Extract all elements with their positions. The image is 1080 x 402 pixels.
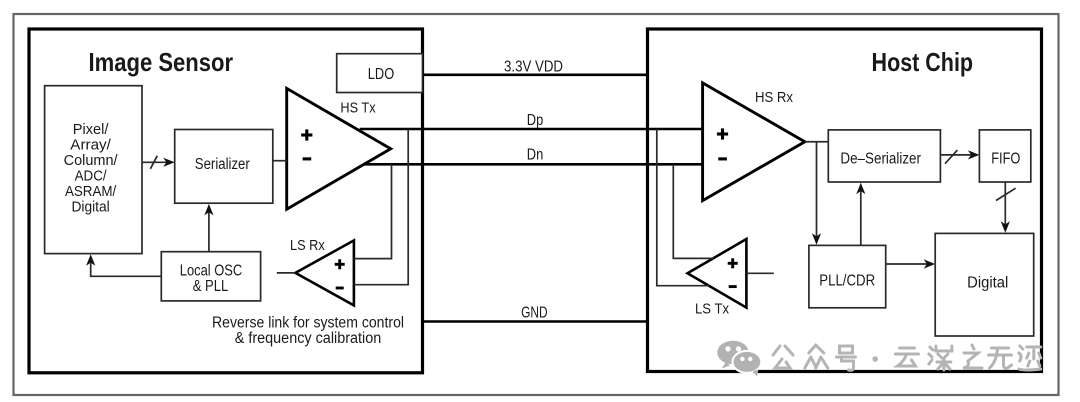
- svg-text:Column/: Column/: [64, 152, 119, 169]
- svg-text:Pixel/: Pixel/: [73, 121, 109, 138]
- svg-text:FIFO: FIFO: [991, 151, 1020, 168]
- svg-text:Digital: Digital: [71, 198, 109, 215]
- svg-text:HS Rx: HS Rx: [755, 89, 793, 106]
- svg-text:LS Rx: LS Rx: [290, 237, 325, 254]
- svg-text:Dn: Dn: [527, 147, 544, 164]
- svg-text:De–Serializer: De–Serializer: [840, 151, 921, 168]
- svg-text:HS Tx: HS Tx: [340, 100, 376, 117]
- svg-text:Digital: Digital: [967, 275, 1008, 292]
- svg-text:LS Tx: LS Tx: [695, 301, 729, 318]
- svg-text:& frequency calibration: & frequency calibration: [235, 330, 382, 347]
- svg-text:3.3V VDD: 3.3V VDD: [504, 59, 563, 76]
- svg-text:& PLL: & PLL: [193, 278, 229, 295]
- svg-text:Local OSC: Local OSC: [180, 262, 243, 279]
- svg-text:Image Sensor: Image Sensor: [89, 47, 234, 77]
- svg-text:Serializer: Serializer: [195, 156, 250, 173]
- svg-text:GND: GND: [521, 305, 548, 322]
- svg-text:LDO: LDO: [368, 66, 394, 83]
- svg-text:ASRAM/: ASRAM/: [65, 183, 117, 200]
- svg-text:Dp: Dp: [527, 112, 544, 129]
- svg-text:Reverse link for system contro: Reverse link for system control: [212, 314, 404, 331]
- svg-text:Host Chip: Host Chip: [872, 47, 974, 77]
- svg-text:PLL/CDR: PLL/CDR: [819, 273, 875, 290]
